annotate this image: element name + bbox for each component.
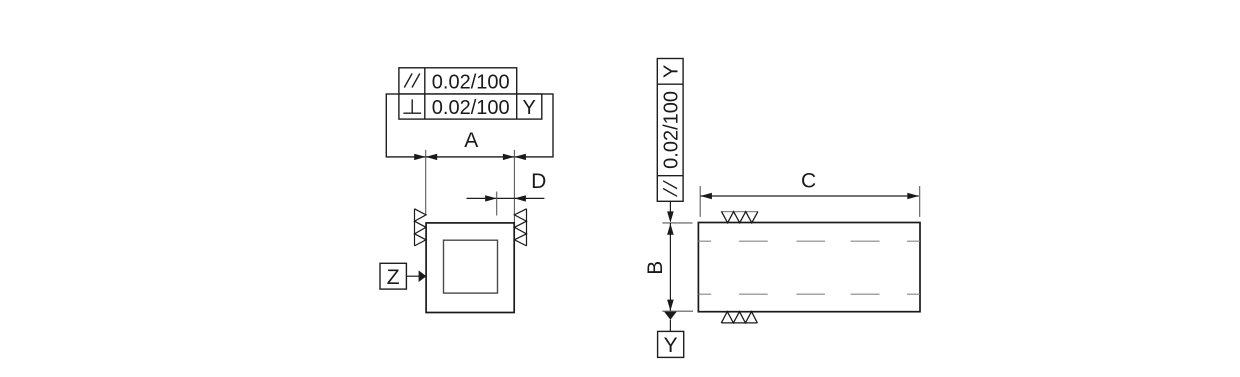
dimension C arrowheads bbox=[700, 193, 918, 199]
extension line left (A) bbox=[425, 150, 427, 216]
svg-text:D: D bbox=[531, 170, 546, 193]
datum Z leader bbox=[406, 275, 419, 277]
bottom support triangles (outline, pointing up) bbox=[721, 312, 757, 323]
right support zigzag triangles bbox=[514, 209, 526, 246]
parallelism symbol // bbox=[404, 74, 420, 88]
dimension A arrowheads bbox=[414, 154, 526, 160]
extension tick for D (inner square edge) bbox=[496, 192, 498, 216]
dimension D arrowheads bbox=[485, 195, 526, 201]
datum Y triangle (filled) bbox=[664, 312, 677, 320]
feature control frame parallelism // 0.02/100 bbox=[399, 68, 517, 94]
svg-text:0.02/100: 0.02/100 bbox=[432, 71, 510, 93]
svg-text:Y: Y bbox=[664, 334, 678, 357]
big box around dimension A and FCFs bbox=[386, 94, 553, 157]
vertical FCF parallelism symbol // (rotated) bbox=[663, 181, 677, 197]
dimension C line bbox=[700, 195, 918, 197]
vertical feature control frame // 0.02/100 Y bbox=[657, 59, 683, 202]
extension line right (A/D) bbox=[513, 150, 515, 223]
svg-text:Y: Y bbox=[523, 97, 536, 119]
perpendicularity symbol bbox=[403, 99, 421, 113]
left support zigzag triangles bbox=[415, 209, 427, 246]
datum Y leader bbox=[669, 320, 671, 332]
top support triangles (outline, pointing down) bbox=[721, 212, 758, 223]
datum Z box bbox=[380, 263, 406, 289]
dimension B arrowheads bbox=[667, 224, 674, 311]
extension line top surface (B) bbox=[662, 222, 692, 224]
FCF leader arrowhead (down) bbox=[667, 211, 674, 222]
inner square bbox=[444, 240, 498, 293]
svg-text:Z: Z bbox=[387, 266, 400, 289]
feature control frame perpendicularity 0.02/100 Y bbox=[399, 94, 542, 119]
upper dashed line bbox=[698, 240, 920, 242]
svg-text:0.02/100: 0.02/100 bbox=[432, 97, 510, 119]
FCF leader line down bbox=[669, 201, 671, 213]
datum Y box bbox=[658, 331, 684, 357]
svg-text:C: C bbox=[801, 170, 816, 193]
svg-text:A: A bbox=[464, 129, 478, 152]
datum Z arrow triangle bbox=[419, 270, 427, 282]
svg-text:Y: Y bbox=[661, 65, 683, 78]
part rectangle (right view) bbox=[698, 223, 920, 312]
lower dashed line bbox=[698, 293, 920, 295]
dimension D line bbox=[467, 197, 545, 199]
svg-text:B: B bbox=[644, 261, 667, 275]
outer square (left view part) bbox=[426, 223, 514, 313]
extension line bottom surface (B) bbox=[662, 310, 693, 312]
dimension B line bbox=[669, 223, 671, 311]
extension line left (C) bbox=[699, 186, 701, 217]
extension line right (C) bbox=[919, 186, 921, 217]
svg-text:0.02/100: 0.02/100 bbox=[661, 91, 683, 169]
